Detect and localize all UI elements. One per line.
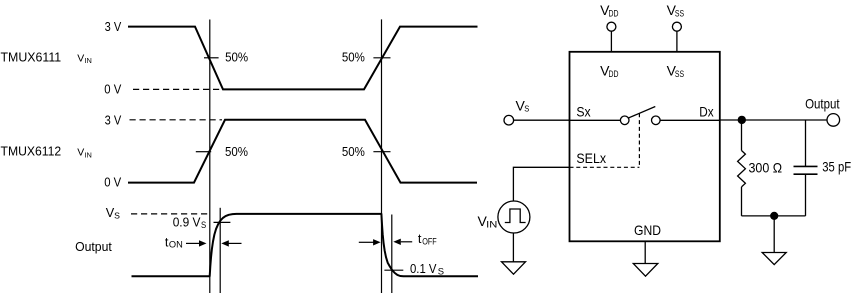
- svg-text:0 V: 0 V: [104, 82, 121, 96]
- ground symbol (GND pin): [633, 264, 658, 277]
- VDD terminal circle: [607, 22, 616, 31]
- wire VS to box: [514, 119, 570, 121]
- svg-text:DD: DD: [609, 9, 619, 19]
- svg-text:IN: IN: [84, 56, 91, 65]
- svg-text:V: V: [77, 146, 84, 158]
- VS terminal circle: [504, 115, 514, 125]
- svg-text:50%: 50%: [225, 145, 248, 159]
- tON arrow right (pointing left): [221, 240, 241, 246]
- svg-text:ON: ON: [169, 240, 183, 250]
- label tON: [165, 235, 183, 249]
- bottom rail wire: [742, 215, 806, 217]
- svg-text:SELx: SELx: [576, 150, 606, 166]
- svg-text:3 V: 3 V: [105, 20, 122, 34]
- device box U1: [570, 52, 720, 242]
- svg-text:SS: SS: [675, 9, 684, 19]
- wire VDD terminal to box: [610, 31, 612, 52]
- wire Sx to switch: [570, 119, 621, 121]
- label 0.1 VS: [410, 262, 444, 277]
- svg-text:0.1 V: 0.1 V: [410, 262, 437, 276]
- pulse symbol inside VIN source: [505, 209, 526, 223]
- svg-text:IN: IN: [486, 219, 497, 229]
- wire resistor to bottom rail: [741, 187, 743, 216]
- svg-text:OFF: OFF: [422, 236, 437, 246]
- wire VIN source to ground: [512, 233, 514, 262]
- 50% tick (waveform 2, falling edge): [373, 151, 390, 153]
- switch pole contact circle: [620, 116, 629, 125]
- wire GND pin: [644, 241, 646, 263]
- label VIN (TMUX6111): [77, 52, 92, 65]
- svg-text:Output: Output: [75, 240, 112, 254]
- 50% tick (waveform 1, rising edge): [373, 57, 390, 59]
- label VS (source): [516, 97, 530, 113]
- svg-text:TMUX6112: TMUX6112: [1, 145, 62, 159]
- svg-text:50%: 50%: [342, 51, 365, 65]
- VDD terminal label: [600, 2, 619, 18]
- wire rail to ground: [773, 216, 775, 253]
- vertical reference line tOFF end: [391, 215, 393, 293]
- wire output node to capacitor: [805, 120, 807, 166]
- svg-text:50%: 50%: [342, 145, 365, 159]
- vertical reference line 2 (second switching edge): [381, 19, 383, 293]
- svg-text:IN: IN: [84, 150, 91, 159]
- wire VSS terminal to box: [676, 31, 678, 52]
- svg-text:50%: 50%: [225, 51, 248, 65]
- svg-text:S: S: [524, 104, 529, 114]
- 50% tick (waveform 2, rising edge): [196, 151, 211, 153]
- pin label VDD inside box: [600, 63, 619, 79]
- svg-text:3 V: 3 V: [105, 113, 122, 127]
- svg-text:SS: SS: [675, 69, 684, 79]
- dashed 3 V level line (waveform 2): [130, 119, 223, 121]
- wire switch to Dx pin: [660, 119, 720, 121]
- svg-text:TMUX6111: TMUX6111: [1, 51, 62, 65]
- svg-text:0 V: 0 V: [104, 176, 121, 190]
- tOFF arrow right (pointing left): [393, 239, 412, 245]
- ground symbol (VIN source): [502, 262, 526, 274]
- waveform TMUX6112 VIN: [128, 120, 477, 183]
- dashed VS level line (output waveform): [131, 213, 210, 215]
- dashed control line horizontal (SELx): [570, 166, 640, 168]
- waveform TMUX6111 VIN: [128, 27, 478, 90]
- label VIN (source): [478, 213, 498, 230]
- wire SELx to VIN source: [513, 167, 569, 202]
- vertical reference line 1 (first switching edge): [209, 20, 211, 293]
- svg-text:S: S: [201, 220, 206, 230]
- label VIN (TMUX6112): [77, 146, 92, 159]
- svg-text:S: S: [438, 267, 444, 277]
- 0.9 VS tick: [214, 221, 231, 223]
- switch lever: [628, 107, 655, 119]
- vertical reference line tON end: [219, 208, 221, 293]
- junction dot bottom rail: [770, 212, 778, 220]
- Output terminal circle: [827, 114, 840, 127]
- VIN pulse source circle: [498, 201, 530, 233]
- dashed control line vertical (SELx to switch): [638, 113, 640, 167]
- tON arrow left (pointing right): [186, 240, 207, 246]
- ground symbol (load): [762, 253, 786, 265]
- junction dot node Dx: [738, 116, 746, 124]
- svg-text:GND: GND: [634, 222, 661, 238]
- capacitor 35 pF plates: [794, 166, 818, 174]
- switch throw contact circle: [652, 116, 661, 125]
- label tOFF: [418, 232, 437, 246]
- svg-text:V: V: [77, 52, 84, 64]
- svg-text:DD: DD: [609, 69, 619, 79]
- svg-text:35 pF: 35 pF: [822, 158, 851, 174]
- 50% tick (waveform 1, falling edge): [204, 57, 219, 59]
- wire Dx to output: [720, 119, 827, 121]
- svg-text:Sx: Sx: [576, 103, 590, 119]
- VSS terminal circle: [672, 22, 681, 31]
- VSS terminal label: [667, 2, 685, 18]
- wire junction to resistor: [741, 120, 743, 151]
- dashed 0 V level line (waveform 1): [133, 88, 222, 90]
- svg-text:Dx: Dx: [699, 103, 713, 119]
- svg-text:300 Ω: 300 Ω: [749, 159, 783, 175]
- wire capacitor to bottom rail: [805, 174, 807, 216]
- resistor 300 ohm: [738, 151, 746, 187]
- label 0.9 VS: [173, 215, 207, 230]
- svg-text:0.9 V: 0.9 V: [173, 215, 201, 229]
- svg-text:S: S: [114, 211, 120, 221]
- output waveform: [132, 214, 479, 276]
- svg-text:Output: Output: [805, 96, 840, 112]
- tOFF arrow left (pointing right): [359, 239, 381, 245]
- pin label VSS inside box: [667, 63, 685, 79]
- 0.1 VS tick: [384, 269, 403, 271]
- label VS (output waveform): [106, 206, 120, 221]
